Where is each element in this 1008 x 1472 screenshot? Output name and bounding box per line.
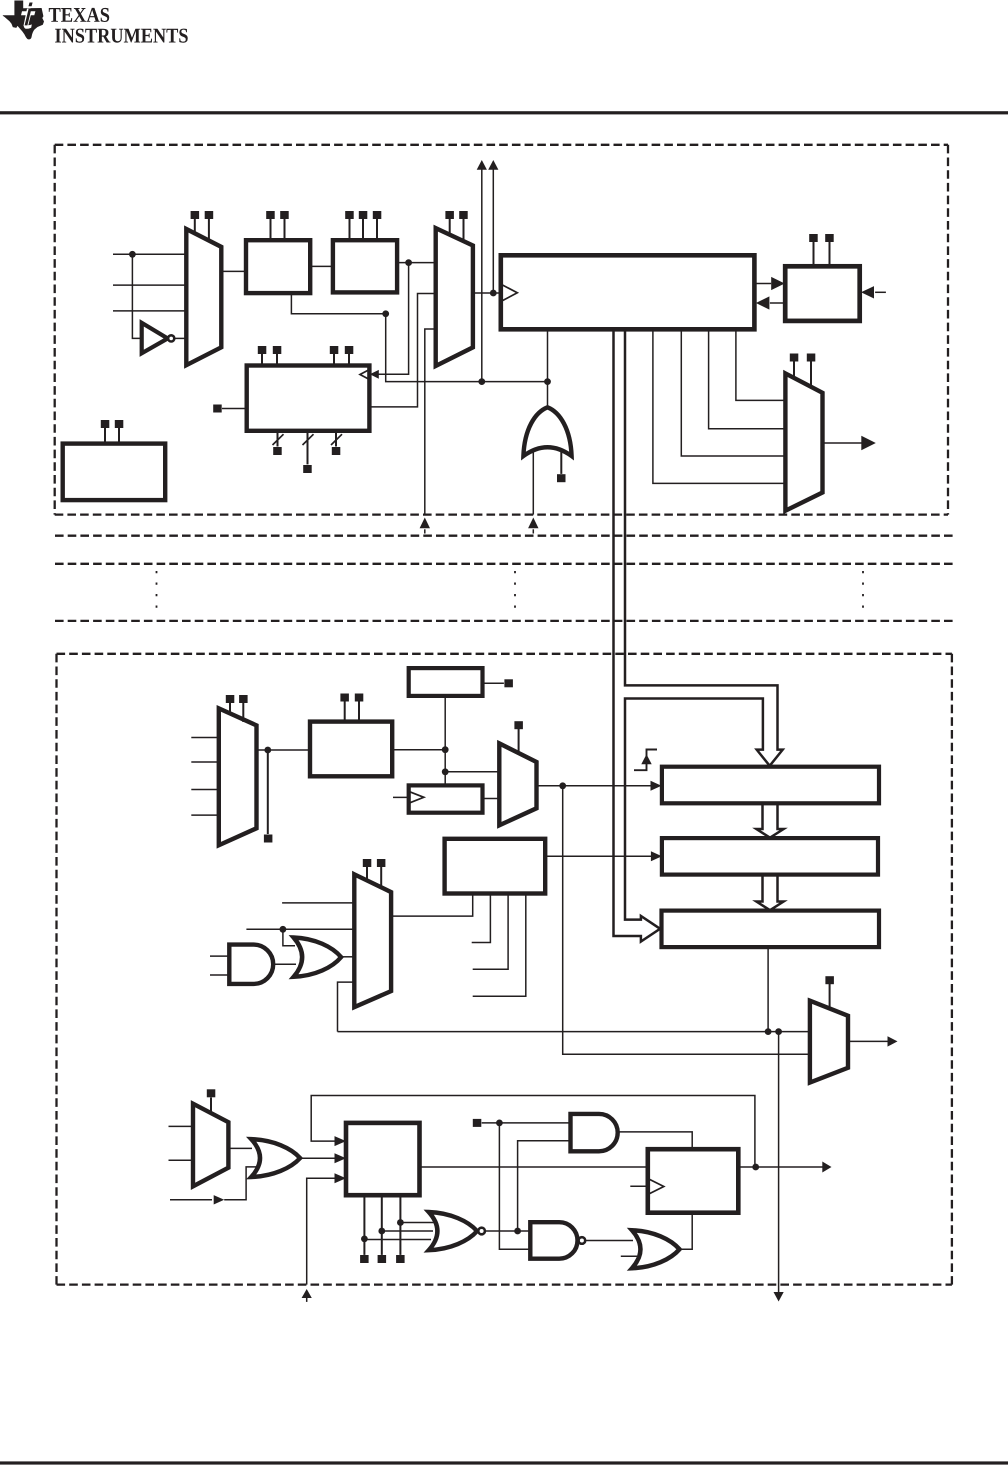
pin square M6-b: [377, 859, 386, 867]
control stem 2 below block: [381, 1195, 383, 1255]
wire input 3 to mux M4: [191, 789, 219, 791]
OR gate G2: [294, 938, 342, 977]
pin stem M3-b: [810, 361, 812, 388]
register C bus stem 1: [277, 431, 279, 447]
pin stem M6-b: [380, 867, 382, 889]
arrowhead into control block 3: [335, 1173, 347, 1183]
OR gate G4: [251, 1139, 300, 1177]
wire block G down to register H: [444, 696, 446, 786]
pin stem M8-a: [210, 1098, 212, 1113]
wire register B output to mux M2: [397, 262, 436, 264]
pin square stem 2: [378, 1255, 387, 1263]
clock edge symbol at DAC latch: [634, 750, 657, 771]
pin square C-b: [273, 346, 282, 354]
wire reset pin to AND G7: [482, 1122, 571, 1124]
clock triangle on data latch: [501, 284, 518, 301]
bus slash mark 3: [331, 434, 342, 445]
inverter U1: [142, 323, 168, 354]
pin square A-b: [280, 211, 289, 219]
arrowhead OR input up at boundary: [528, 518, 538, 529]
arrowhead into register C clock: [370, 370, 379, 379]
pin square M3-a: [790, 354, 799, 362]
pin square M4-a: [226, 695, 235, 703]
node junction stem 2: [378, 1228, 385, 1235]
arrowhead into interface E: [771, 277, 785, 290]
arrowhead down-off-section: [774, 1292, 784, 1302]
pin square F-a: [340, 694, 349, 702]
wire M4 output down to pin: [267, 750, 269, 834]
wire block F2 output to DAC latch 2: [545, 855, 652, 857]
wire input 1 to mux M8: [169, 1125, 194, 1127]
pin stem D-a: [104, 428, 106, 444]
wire register A to register B: [310, 265, 333, 267]
wire mux M3 output: [823, 442, 863, 444]
node junction M5 output: [559, 782, 566, 789]
channel separator dashed line 2: [55, 563, 953, 565]
register C block: [247, 366, 370, 431]
wire OR G8 output to flip-flop preset: [680, 1213, 693, 1250]
wire latch out bit3 to mux M3: [709, 329, 786, 429]
pin square M7-a: [825, 976, 834, 984]
pin stem M4-a: [229, 703, 231, 715]
pin square M1-b: [205, 211, 214, 219]
clock triangle on register H: [410, 792, 424, 803]
pin square G right: [504, 679, 513, 687]
register C bus stem 3: [335, 431, 337, 447]
node junction stem 3: [397, 1219, 404, 1226]
pin stem M2-b: [463, 219, 465, 242]
wire latch bit0 down to OR gate: [547, 329, 549, 407]
mux M6: [354, 874, 391, 1007]
wire mux M2 output to latch clock: [473, 292, 501, 294]
wire latch out bit2 to mux M3: [681, 329, 785, 456]
pin stem B-a: [349, 219, 351, 240]
NOR gate G5: [429, 1212, 477, 1250]
wire NAND G6 output to OR G8: [585, 1239, 633, 1241]
pin stem M2-a: [449, 219, 451, 235]
pin stem M3-a: [793, 361, 795, 379]
arrowhead up-off-page left: [477, 160, 487, 170]
pin square D-a: [101, 420, 110, 428]
pin stem A-b: [284, 219, 286, 240]
wire OR G2 output to mux M6: [341, 956, 354, 958]
pin stem E-a: [813, 242, 815, 266]
wire latch out bit4 to mux M3: [736, 329, 786, 400]
pin square M2-b: [459, 211, 468, 219]
wire input A branch down to inverter: [132, 254, 141, 338]
hollow arrow DAC latch 1 to 2: [756, 803, 783, 837]
node junction net row right: [544, 378, 551, 385]
pin square stem 1: [360, 1255, 369, 1263]
interface block E: [785, 266, 860, 321]
wire input A to mux M1: [113, 253, 186, 255]
mux M2: [436, 228, 473, 366]
wire power-up input from below: [307, 1178, 337, 1284]
wire stub to OR G8 input 2: [621, 1255, 637, 1257]
control stem 1 below block: [363, 1195, 365, 1255]
wire input B to mux M1: [113, 284, 186, 286]
channel separator dashed line 3: [55, 620, 953, 622]
analog section dashed boundary box (bottom): [57, 654, 952, 1285]
OR gate G1 (clock enable): [523, 407, 571, 456]
wire stem 2 to NOR G5 input 2: [382, 1230, 433, 1232]
wire mux M5 output to DAC latch: [537, 785, 653, 787]
wire interface E to data latch: [770, 302, 785, 304]
wire loop feedback top: [311, 1096, 755, 1168]
node junction carry: [382, 310, 389, 317]
control block D: [63, 444, 166, 501]
pin stem M1-a: [194, 219, 196, 234]
wire OR G4 output to control block: [300, 1157, 336, 1159]
wire OR G1 input from below boundary: [532, 450, 534, 515]
pin square M6-a: [363, 859, 372, 867]
node junction flip-flop output: [752, 1164, 759, 1171]
OR gate G8: [632, 1230, 680, 1268]
wire register H output to mux M5: [483, 798, 500, 800]
INSTRUMENTS wordmark text: [55, 29, 188, 43]
wire OR G1 input to pin: [560, 452, 562, 474]
arrowhead into data latch: [756, 296, 770, 309]
pin square C-d: [345, 346, 354, 354]
ellipsis dotted column left: [156, 571, 158, 611]
arrowhead into DAC latch 1: [651, 781, 662, 791]
pin square C-bus2: [303, 465, 312, 473]
mux M5: [499, 743, 536, 825]
wire mux M4 output to gain block: [257, 749, 311, 751]
mux M1: [186, 229, 221, 365]
wire OR input stub below arrow: [532, 529, 534, 533]
arrowhead power-up at boundary: [302, 1289, 312, 1298]
mux M8: [193, 1104, 228, 1187]
wire input 1 to mux M6: [282, 902, 354, 904]
top horizontal rule: [0, 111, 1008, 114]
wire input 4 to mux M4: [191, 814, 219, 816]
DAC latch 1 block: [662, 767, 879, 804]
wire strobe input with arrow: [170, 1199, 212, 1201]
pin stem M1-b: [208, 219, 210, 241]
pin stem M5-a: [518, 729, 520, 752]
wire flip-flop output: [738, 1166, 822, 1168]
pin stem C-d: [348, 354, 350, 366]
arrowhead mux M3 output: [861, 436, 876, 450]
pin stem M7-a: [829, 984, 831, 1010]
register C bus stem 2: [307, 431, 309, 465]
Texas Instruments logo (Texas state mark): [3, 1, 44, 40]
wire clock stub into flip-flop: [630, 1185, 649, 1187]
wire input 2 to mux M8: [169, 1159, 194, 1161]
pin stem C-a: [261, 354, 263, 366]
arrowhead mux M7 output: [888, 1036, 898, 1046]
register H block (with clock): [409, 785, 483, 812]
wire NOR G5 output to NAND G6: [485, 1230, 530, 1232]
pin square M1-a: [191, 211, 200, 219]
AND gate G7: [571, 1114, 618, 1151]
bus slash mark 2: [303, 434, 314, 445]
DAC latch 2 block: [662, 838, 878, 875]
mux M3 (output select): [785, 373, 822, 510]
pin stem F-b: [358, 702, 360, 722]
pin stem M4-b: [242, 703, 244, 722]
pin square E-a: [809, 234, 818, 242]
wire node to mux M5 input 1: [445, 771, 499, 773]
control stub 1 from block F2: [472, 894, 491, 943]
arrowhead select up at boundary: [420, 518, 430, 529]
wire mux M2 feedback from register C: [369, 294, 435, 407]
arrowhead into control block 2: [335, 1153, 347, 1163]
pin square M4-b: [239, 695, 248, 703]
node junction on M6 input 2: [280, 926, 287, 933]
gain block F: [310, 722, 392, 777]
wire DAC register 3 output down: [767, 947, 769, 1032]
wire branch down to register C clock: [378, 263, 408, 375]
pin square E-b: [825, 234, 834, 242]
TEXAS wordmark text: [49, 8, 109, 22]
node junction on input A: [129, 251, 136, 258]
wire input a to AND G3: [210, 955, 231, 957]
pin square C-bus1: [273, 447, 282, 455]
pin stem D-b: [118, 428, 120, 444]
wire clock stub into register H: [393, 796, 410, 798]
pin stem A-a: [270, 219, 272, 240]
pin square F-b: [355, 694, 364, 702]
pin square A-a: [266, 211, 275, 219]
wire input 2 to mux M6: [246, 928, 354, 930]
flip-flop block: [648, 1149, 739, 1213]
pin square stem 3: [396, 1255, 405, 1263]
wire control block output to flip-flop: [420, 1166, 648, 1168]
wire stem 3 to NOR G5 input 1: [400, 1222, 437, 1224]
wire input C to mux M1: [113, 310, 186, 312]
pin stem B-c: [376, 219, 378, 240]
node junction G-F: [442, 746, 449, 753]
bus slash mark 1: [273, 434, 284, 445]
clock triangle on register C: [360, 370, 369, 379]
node junction feedback right: [775, 1028, 782, 1035]
node junction G-H: [442, 768, 449, 775]
wire AND G3 output to OR G2: [273, 963, 296, 965]
control stub 2 from block F2: [473, 894, 508, 970]
control block F2: [445, 839, 546, 894]
wire input 2 to mux M4: [191, 761, 219, 763]
wire net row up to top arrow: [481, 169, 483, 382]
arrowhead into interface E right: [861, 286, 874, 298]
control stub 3 from block F2: [473, 894, 526, 997]
wire register A carry down: [291, 293, 385, 314]
arrowhead into DAC latch 2: [651, 851, 662, 861]
control block timing: [346, 1123, 420, 1195]
node junction stem 1: [361, 1236, 368, 1243]
node junction NOR output: [514, 1228, 521, 1235]
node junction reset: [496, 1120, 503, 1127]
pin square G1 input: [557, 474, 566, 482]
wire M2 output up to top arrow: [492, 169, 494, 293]
pin square B-c: [373, 211, 382, 219]
wire to output buffer below: [778, 1032, 780, 1294]
wire strobe to OR G4 input 2: [224, 1167, 256, 1200]
hollow arrow DAC latch 2 to 3: [756, 875, 783, 911]
arrowhead up-off-page right: [488, 160, 498, 170]
mux M7 (output mux): [810, 1001, 848, 1083]
wire external input to interface E: [875, 291, 886, 293]
pin stem M6-a: [366, 867, 368, 882]
pin stem C-b: [276, 354, 278, 366]
channel separator dashed line 1: [55, 535, 953, 537]
pin square M8-a: [207, 1089, 216, 1097]
wire data latch to interface E: [754, 283, 771, 285]
pin square M4 output: [264, 835, 273, 843]
pin square D-b: [115, 420, 124, 428]
pin stem F-a: [344, 702, 346, 722]
wire inverter output to mux M1: [174, 337, 186, 339]
control stem 3 below block: [399, 1195, 401, 1255]
pin stem E-b: [829, 242, 831, 266]
wire branch down to OR gate G2: [283, 929, 295, 945]
wire feedback riser to mux M6 input 4: [338, 982, 355, 1032]
pin square M5-a: [514, 721, 523, 729]
NAND gate G6: [530, 1222, 577, 1259]
wire reset branch down to NAND G6: [499, 1123, 530, 1249]
wire carry down to net row: [386, 314, 548, 382]
ellipsis dotted column centre: [514, 571, 516, 611]
arrowhead flip-flop output: [822, 1162, 831, 1173]
wire mux M2 select from below: [425, 329, 436, 515]
pin square C-left: [213, 405, 222, 413]
control block G: [409, 668, 483, 696]
hollow data bus from latch to DAC registers: [614, 329, 783, 941]
wire select stub below arrow: [424, 529, 426, 533]
node junction net row left: [478, 378, 485, 385]
clock triangle on flip-flop: [649, 1179, 664, 1194]
pin square M2-a: [445, 211, 454, 219]
arrowhead on strobe wire: [214, 1195, 225, 1204]
pin square B-b: [359, 211, 368, 219]
wire power-up stub below arrow: [306, 1297, 308, 1302]
node junction M4 output: [264, 747, 271, 754]
wire NOR output up to AND G7: [518, 1141, 571, 1231]
pin square reset input: [473, 1119, 482, 1127]
wire mux M7 output: [848, 1040, 888, 1042]
bottom horizontal rule: [0, 1461, 1008, 1464]
wire block G to pin: [483, 682, 504, 684]
wire input 1 to mux M4: [191, 737, 219, 739]
pin stem B-b: [362, 219, 364, 240]
wire stem 1 to NOR G5 input 3: [364, 1239, 431, 1241]
pin square C-c: [330, 346, 339, 354]
pin wire into register C left: [222, 408, 247, 410]
wire input b to AND G3: [210, 974, 231, 976]
pin square M3-b: [807, 354, 816, 362]
wire AND G7 output to flip-flop clock-top: [618, 1132, 693, 1149]
wire gain block F to node: [392, 749, 445, 751]
pin square B-a: [345, 211, 354, 219]
wire analog feedback line: [338, 1031, 810, 1033]
wire latch out bit1 to mux M3: [653, 329, 786, 483]
pin stem C-c: [333, 354, 335, 366]
register A block: [246, 240, 310, 293]
AND gate G3: [229, 945, 273, 984]
node junction register B output: [405, 259, 412, 266]
node junction M2 output: [490, 290, 497, 297]
wire mux M1 output to register A: [221, 270, 246, 272]
arrowhead into control block 1: [335, 1136, 347, 1146]
digital section dashed boundary box (top): [55, 145, 948, 515]
node junction feedback left: [765, 1028, 772, 1035]
DAC register 3 block: [662, 911, 880, 948]
data latch main block: [501, 255, 755, 329]
pin square C-bus3: [332, 447, 341, 455]
wire M5 output branch down: [563, 786, 810, 1055]
register B block: [333, 240, 397, 292]
mux M4 (reference select): [219, 708, 257, 845]
pin square C-a: [258, 346, 267, 354]
ellipsis dotted column right: [862, 571, 864, 611]
wire mux M6 output up into block F2: [391, 894, 473, 917]
wire mux M8 output to OR G4: [228, 1147, 252, 1149]
